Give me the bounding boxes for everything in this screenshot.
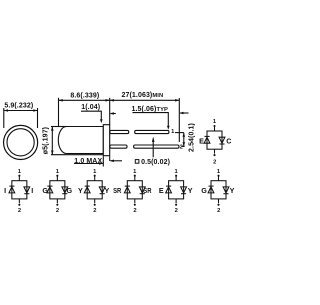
lead 1 pin number tick <box>175 132 184 134</box>
svg-text:G: G <box>201 186 207 195</box>
dimension phi5(.197) bottom extension line <box>51 154 103 156</box>
dimension 1(.04) leader line <box>81 111 101 119</box>
LED front view outer circle (flange) <box>4 125 38 159</box>
dimension 1.5(.06)TYP leader line <box>133 113 169 126</box>
lead 2 segment A <box>110 145 127 148</box>
LED front view inner circle (dome) <box>7 129 34 156</box>
svg-text:Y: Y <box>188 186 193 195</box>
svg-text:2: 2 <box>18 208 21 214</box>
dimension phi5(.197) dimension line <box>51 127 53 155</box>
svg-text:0.5(0.02): 0.5(0.02) <box>141 159 170 166</box>
svg-text:1.0 MAX.: 1.0 MAX. <box>74 158 104 165</box>
svg-text:1.5(.06)TYP: 1.5(.06)TYP <box>132 106 169 113</box>
shared extension line (flange right) <box>109 98 111 125</box>
dimension 5.9(.232) extension line left <box>3 108 5 128</box>
svg-text:E: E <box>199 136 204 145</box>
LED body (epoxy dome, side view) <box>58 127 103 154</box>
svg-text:E: E <box>159 186 164 195</box>
dimension 8.6(.339) extension line (dome tip) <box>58 98 60 127</box>
bi-color LED schematic symbol, top right (E/C) <box>199 119 231 166</box>
dimension 2.54(0.1) arrow up <box>183 133 186 137</box>
svg-text:2: 2 <box>93 208 96 214</box>
svg-text:8.6(.339): 8.6(.339) <box>70 93 99 100</box>
dimension 2.54(0.1) bottom tick <box>182 145 185 147</box>
svg-text:G: G <box>67 186 73 195</box>
dimension 8.6(.339) dimension line <box>59 99 110 101</box>
svg-text:2: 2 <box>217 208 220 214</box>
dimension 5.9(.232) extension line right <box>37 108 39 128</box>
dimension 2.54(0.1) arrow down <box>183 142 186 146</box>
dimension phi5(.197) top extension line <box>51 126 67 128</box>
dimension 2.54(0.1) dimension line <box>183 133 185 147</box>
dimension 1(.04) leader arrow down <box>100 119 103 123</box>
dimension 1.0 MAX flange-right extension line <box>109 156 111 161</box>
dimension 1.0 MAX dimension line with right arrow <box>74 163 103 165</box>
svg-text:Y: Y <box>78 186 83 195</box>
svg-text:SR: SR <box>113 186 122 195</box>
dimension 5.9(.232) arrow right <box>33 109 37 112</box>
diode pair symbol 2 (G / G) <box>42 169 72 214</box>
dimension 27(1.063)MIN arrow right <box>175 99 179 102</box>
dimension 5.9(.232) dimension line <box>4 110 38 112</box>
diode pair symbol 3 (Y / Y) <box>78 169 110 214</box>
dimension phi5(.197) arrow down <box>51 151 54 155</box>
diode pair symbol 1 (I / I) <box>4 169 33 214</box>
square lead symbol <box>135 160 139 164</box>
svg-text:2: 2 <box>213 160 216 166</box>
LED flange <box>103 125 109 156</box>
svg-text:5.9(.232): 5.9(.232) <box>4 102 33 109</box>
svg-text:2: 2 <box>133 208 136 214</box>
diode pair symbol 5 (E / Y) <box>159 169 193 214</box>
dimension 27(1.063)MIN arrow left <box>110 99 114 102</box>
diode pair symbol 6 (G / Y) <box>201 169 234 214</box>
svg-text:I: I <box>4 186 6 195</box>
svg-text:C: C <box>226 136 231 145</box>
dimension 1.0 MAX mate arrow (points left) <box>111 160 123 162</box>
lead 1 segment B <box>135 130 169 133</box>
svg-text:Y: Y <box>230 186 235 195</box>
diode pair symbol 4 (SR / SR) <box>113 169 152 214</box>
svg-text:SR: SR <box>143 186 152 195</box>
dimension 5.9(.232) arrow left <box>4 109 8 112</box>
dimension 27(1.063)MIN extension line (lead end) <box>178 98 180 142</box>
svg-text:2.54(0.1): 2.54(0.1) <box>188 123 195 152</box>
dimension 8.6(.339) arrow right <box>106 99 110 102</box>
svg-text:2: 2 <box>180 145 183 151</box>
svg-text:27(1.063)MIN: 27(1.063)MIN <box>122 92 164 99</box>
dimension 1.5(.06)TYP leader arrow down <box>167 126 170 130</box>
lead 2 segment B <box>134 145 179 148</box>
lead 1 segment A <box>110 130 129 133</box>
svg-text:Y: Y <box>105 186 110 195</box>
dimension 27(1.063)MIN dimension line <box>110 99 180 101</box>
svg-text:2: 2 <box>175 208 178 214</box>
dimension 1.5(.06)TYP mate arrow (points left at lead-end extension) <box>180 112 188 114</box>
dimension phi5(.197) arrow up <box>51 127 54 131</box>
svg-text:2: 2 <box>56 208 59 214</box>
svg-text:G: G <box>42 186 48 195</box>
leader for square lead 0.5(0.02) <box>152 142 154 158</box>
dimension 8.6(.339) arrow left <box>59 99 63 102</box>
svg-text:I: I <box>31 186 33 195</box>
svg-text:ø5(.197): ø5(.197) <box>42 127 49 154</box>
svg-text:1(.04): 1(.04) <box>81 104 100 111</box>
dimension 1.0 MAX flange-left extension line <box>102 156 104 166</box>
dimension 1(.04) mate arrow (points left at flange right) <box>111 113 116 115</box>
